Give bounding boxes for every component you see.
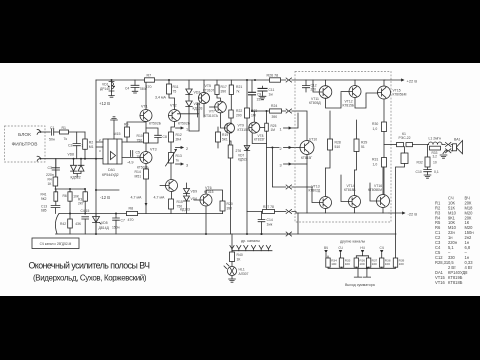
wire VT8 base wire [260, 127, 265, 129]
wire VT14 base [341, 175, 349, 202]
svg-text:1: 1 [280, 128, 282, 132]
wire R3 stubs [84, 189, 86, 214]
svg-text:R41: R41 [40, 193, 46, 197]
wire C3 stub [55, 159, 57, 176]
resistor R32 [425, 157, 430, 167]
svg-text:АЛ307: АЛ307 [239, 272, 249, 276]
capacitor C14 [258, 220, 265, 222]
svg-text:С4: С4 [125, 86, 129, 90]
svg-text:ВА1: ВА1 [454, 138, 461, 142]
wire VT13 collector [325, 209, 327, 214]
diode VD7 [244, 146, 250, 151]
svg-text:100: 100 [331, 262, 336, 266]
capacitor C12 [302, 86, 309, 88]
svg-text:ДР140: ДР140 [100, 87, 110, 91]
wire input 2 [41, 158, 104, 160]
resistor R37 [366, 258, 370, 267]
svg-text:R9: R9 [124, 123, 128, 127]
transistor VT3 [140, 152, 152, 164]
svg-text:2: 2 [186, 147, 188, 151]
svg-text:ФИЛЬТРОВ: ФИЛЬТРОВ [12, 142, 38, 148]
wire VT3 emitter [145, 164, 147, 170]
table component values [435, 196, 474, 286]
svg-text:685: 685 [41, 209, 47, 213]
transistor VT10 [300, 141, 314, 155]
svg-text:5К1: 5К1 [222, 138, 228, 142]
svg-text:7к: 7к [176, 159, 180, 163]
resistor R1 [60, 130, 69, 134]
svg-text:СЧ канал с 25ГД52-М: СЧ канал с 25ГД52-М [40, 242, 72, 246]
svg-text:VT7: VT7 [209, 109, 215, 113]
svg-text:КТ805Д: КТ805Д [309, 101, 321, 105]
svg-text:-22 В: -22 В [408, 211, 418, 216]
net 2 link line [267, 148, 286, 188]
svg-text:КД522: КД522 [71, 176, 81, 180]
svg-text:др. каналы: др. каналы [241, 239, 260, 243]
svg-text:R2: R2 [89, 141, 94, 145]
wire C14 stubs [261, 212, 263, 235]
net arrow 3 left [176, 163, 184, 165]
ground above DA1 [111, 117, 118, 120]
speaker BA1 [453, 141, 463, 154]
wire R32 chain [427, 145, 429, 176]
capacitor C13 [51, 205, 60, 207]
wire R22 to VT9 [230, 118, 232, 123]
ground below C10 [424, 175, 431, 178]
wire R23 down long [246, 118, 248, 234]
transistor VT12 [349, 86, 361, 98]
resistor R39 [393, 258, 397, 267]
dashed power amplifier box [295, 72, 391, 223]
resistor R14 [144, 169, 149, 179]
resistor R26 [270, 78, 281, 82]
wire R29 stubs [355, 120, 357, 170]
svg-text:БЛОК: БЛОК [18, 132, 31, 138]
resistor R23 [245, 108, 250, 118]
net arrow 2 right [284, 147, 292, 149]
svg-text:С8: С8 [163, 135, 167, 139]
transistor VT2 [169, 110, 181, 122]
resistor R4 [53, 177, 58, 186]
wire VT16 collector [382, 208, 384, 214]
wire R14 down [145, 179, 147, 214]
svg-text:43К: 43К [75, 222, 81, 226]
wire VT7 collector [221, 113, 225, 128]
svg-text:100: 100 [372, 262, 377, 266]
connector other channel 3 [244, 246, 248, 251]
diode VD3 [186, 89, 193, 95]
wire net2 into box [292, 147, 300, 149]
resistor R38 [380, 258, 384, 267]
svg-text:780н: 780н [140, 87, 148, 91]
svg-text:276: 276 [236, 149, 242, 153]
diode VD6 [184, 196, 190, 201]
wire C13 bottom [55, 189, 57, 214]
svg-text:L1 2мГн: L1 2мГн [429, 137, 442, 141]
ground speaker [440, 155, 447, 158]
wire VT11 collector [325, 80, 327, 86]
svg-text:R24: R24 [271, 104, 277, 108]
svg-text:С7: С7 [121, 219, 125, 223]
svg-text:М51: М51 [135, 175, 142, 179]
svg-text:750: 750 [137, 139, 143, 143]
diode VD9 [184, 189, 190, 194]
wire speaker return [445, 150, 452, 152]
main bus y234 [56, 233, 397, 235]
capacitor C7 [113, 218, 120, 220]
svg-text:390: 390 [227, 207, 233, 211]
svg-text:VT16: VT16 [435, 280, 446, 285]
wire VT11 emitter [326, 93, 342, 109]
svg-text:75: 75 [173, 90, 177, 94]
svg-text:М15: М15 [114, 132, 121, 136]
svg-text:R15: R15 [177, 200, 183, 204]
svg-text:СЧ: СЧ [338, 246, 342, 250]
svg-text:VD3: VD3 [194, 91, 201, 95]
relay contact boxes [397, 143, 404, 147]
capacitor C4 [131, 85, 139, 87]
svg-text:КД103: КД103 [180, 208, 190, 212]
svg-text:КТ815Г: КТ815Г [254, 138, 265, 142]
connector speaker top [446, 143, 451, 147]
wire diode pair stubs [74, 159, 82, 177]
connector other channel 2 [237, 246, 241, 251]
wire R10 to VT3 [145, 143, 147, 152]
svg-text:7к: 7к [64, 137, 68, 141]
bias line y189 [55, 188, 85, 190]
wire R6 stubs [69, 189, 71, 214]
svg-text:3,4 мА: 3,4 мА [155, 96, 166, 100]
connector X4 bus [286, 232, 291, 236]
svg-text:3: 3 [186, 164, 188, 168]
wire R12 to R13 [170, 142, 172, 153]
wire VT2 collector [169, 94, 175, 110]
lower line y250 [232, 234, 272, 251]
svg-text:100: 100 [385, 262, 390, 266]
wire C4b stubs [84, 219, 86, 234]
wire R4 to bias line [54, 186, 56, 189]
svg-text:КР544УД2: КР544УД2 [102, 173, 119, 177]
supply arrow +22V [385, 79, 404, 81]
net arrow 1 right [284, 127, 292, 129]
svg-text:R40: R40 [237, 253, 243, 257]
ground below HL1 [229, 279, 236, 282]
svg-text:КТ802Д: КТ802Д [309, 189, 321, 193]
svg-text:КД522: КД522 [238, 158, 248, 162]
wire relay coil leads [396, 147, 405, 234]
wire VT16 top [382, 167, 384, 195]
connector input 1 [37, 130, 40, 135]
svg-text:R22: R22 [236, 109, 242, 113]
svg-text:R14: R14 [135, 170, 141, 174]
wire R40 column [231, 251, 233, 252]
wire R20 down [222, 211, 224, 214]
svg-text:0,1: 0,1 [434, 170, 439, 174]
wire R17 stubs [217, 80, 221, 101]
resistor R19 [216, 132, 221, 142]
zener VD5 [93, 217, 100, 223]
svg-text:R17: R17 [221, 85, 227, 89]
wire VT16 base [370, 183, 377, 201]
wire C12 stub [305, 80, 307, 92]
svg-text:2К7: 2К7 [78, 202, 84, 206]
wire R9 top [127, 122, 146, 142]
ic DA1 box [103, 139, 122, 164]
transistor VT14 [349, 196, 361, 208]
svg-text:1К: 1К [237, 258, 241, 262]
connector summator in 3 [361, 250, 364, 253]
wire trimmer curve [55, 214, 59, 234]
resistor R41 [54, 192, 58, 201]
wire VT15 collector [383, 80, 385, 86]
wire VT12 base [341, 91, 349, 93]
svg-text:390: 390 [272, 115, 278, 119]
resistor R20 [220, 201, 225, 211]
svg-text:КТ805БМ: КТ805БМ [393, 93, 407, 97]
svg-text:R26 78: R26 78 [267, 74, 279, 78]
svg-text:DA1: DA1 [108, 168, 115, 172]
connector speaker bottom [446, 149, 451, 153]
capacitor C8 [155, 135, 162, 137]
svg-text:СЧ: СЧ [380, 246, 384, 250]
current arrow left [145, 203, 148, 206]
svg-text:R27 78: R27 78 [263, 205, 274, 209]
wire R40 to HL1 [231, 262, 233, 267]
wire R25 column [266, 111, 268, 212]
wire sum stubs [326, 234, 396, 258]
inductor L1 [429, 142, 443, 145]
svg-text:R11: R11 [173, 85, 179, 89]
wire R31 down [383, 167, 385, 195]
connector summator in 2 [339, 250, 342, 253]
wire R15 down [170, 209, 172, 214]
svg-text:150н: 150н [112, 226, 120, 230]
svg-text:1М: 1М [271, 128, 276, 132]
svg-text:4,7 мА: 4,7 мА [131, 196, 142, 200]
svg-text:С2: С2 [68, 143, 73, 147]
connector other channel 5 [259, 246, 263, 251]
wire C2 stub [76, 132, 78, 159]
wire net1 into box [292, 113, 298, 128]
resistor R6 [68, 192, 72, 201]
svg-text:R4: R4 [48, 178, 52, 182]
svg-text:51: 51 [361, 145, 365, 149]
svg-text:КТ815Б: КТ815Б [343, 103, 355, 107]
connector other channel 1 [230, 246, 234, 251]
connector X2 mid [286, 109, 291, 113]
svg-text:VT3: VT3 [150, 148, 157, 152]
svg-text:КТ502Б: КТ502Б [149, 122, 162, 126]
svg-text:ВЧ: ВЧ [324, 246, 328, 250]
wire relay to L1 [413, 144, 429, 146]
svg-text:9К2: 9К2 [41, 197, 47, 201]
svg-text:R30: R30 [372, 122, 378, 126]
net arrow 1 left [176, 127, 184, 129]
transistor VT4 [166, 180, 178, 192]
capacitor C1 [52, 129, 54, 135]
svg-text:100: 100 [359, 262, 364, 266]
connector summator in 4 [380, 250, 383, 253]
ground tick C4 [132, 91, 138, 93]
capacitor C11 [258, 88, 267, 91]
resistor R30 [382, 122, 387, 132]
svg-text:2: 2 [280, 147, 282, 151]
svg-text:С11: С11 [269, 88, 275, 92]
svg-text:1,0: 1,0 [373, 127, 378, 131]
wire VT14 emitter top [354, 170, 356, 196]
wire VD4 down [189, 103, 199, 131]
svg-text:М1: М1 [89, 145, 94, 149]
svg-text:R32: R32 [417, 161, 423, 165]
wire VT6 collector [206, 190, 223, 201]
wire bus into box [292, 79, 385, 81]
wire VT5 collector [203, 80, 205, 92]
resistor R12 [169, 132, 174, 142]
capacitor C3 [52, 168, 59, 170]
svg-text:Оконечный усилитель полосы ВЧ: Оконечный усилитель полосы ВЧ [29, 260, 151, 270]
svg-text:R12: R12 [176, 133, 182, 137]
resistor R40 [230, 252, 235, 262]
wire main left rail x96 [95, 80, 97, 234]
wire diff to VT5 base [178, 113, 200, 115]
svg-text:+12 В: +12 В [99, 101, 110, 106]
ground tick VD1 [109, 96, 115, 98]
trim resistor R13 [169, 153, 174, 164]
svg-text:10: 10 [433, 161, 437, 165]
wire VD9 column [186, 183, 188, 188]
wire VT12 collector [354, 80, 356, 86]
svg-text:1: 1 [186, 128, 188, 132]
svg-text:390: 390 [221, 90, 227, 94]
svg-text:+22 В: +22 В [407, 78, 418, 83]
resistor R35 [339, 258, 343, 267]
wire R2 to input line 2 [84, 149, 86, 158]
svg-text:С9: С9 [257, 92, 261, 96]
svg-text:R31: R31 [372, 158, 378, 162]
svg-text:1мк: 1мк [267, 223, 273, 227]
ground below C11 [259, 96, 266, 99]
svg-text:Д814Д: Д814Д [99, 226, 110, 230]
resistor R25 [265, 123, 269, 131]
resistor R11 [167, 84, 172, 94]
choke VD1 symbol [109, 80, 114, 92]
svg-text:VD9: VD9 [191, 190, 198, 194]
relay coil K1 [401, 153, 408, 164]
svg-text:КТ315: КТ315 [204, 190, 214, 194]
diode VD6 [71, 165, 77, 171]
svg-text:РЭС-22: РЭС-22 [399, 136, 411, 140]
net 2 drive into box [292, 186, 312, 188]
svg-text:С3: С3 [48, 166, 53, 170]
svg-text:100: 100 [345, 262, 350, 266]
svg-text:100: 100 [399, 262, 404, 266]
resistor R29 [354, 139, 359, 152]
wire node A down [84, 132, 86, 139]
svg-text:1м: 1м [269, 93, 274, 97]
resistor R27 [263, 210, 275, 214]
transistor VT15 [378, 86, 391, 99]
wire lower link right [275, 211, 286, 213]
wire y214 line [59, 213, 223, 215]
wire vas out y111 [252, 110, 286, 112]
resistor R7 [145, 78, 155, 82]
wire VT13 emitter top [325, 168, 327, 197]
wire lower into box [292, 212, 296, 214]
wire speaker gnd [443, 151, 445, 154]
wire VT5 emitter [198, 103, 204, 117]
wire VT14 collector [354, 208, 356, 214]
svg-text:R7: R7 [147, 74, 152, 78]
wire VT10 emitter [306, 155, 308, 214]
connector X1 top [286, 78, 291, 82]
resistor R10 [144, 133, 149, 143]
resistor R2 [83, 139, 88, 149]
svg-text:200: 200 [236, 114, 242, 118]
wire VD1 to gnd [111, 92, 113, 96]
wire -12 stub [96, 189, 119, 191]
svg-text:другие каналы: другие каналы [340, 240, 365, 244]
wire R42 stubs [69, 214, 71, 235]
svg-text:R10: R10 [137, 134, 143, 138]
svg-text:1,0: 1,0 [373, 162, 378, 166]
svg-text:VT2: VT2 [170, 104, 177, 108]
diode VD7 [78, 165, 84, 171]
wire VT2 emitter [171, 122, 175, 133]
wire zener stubs [95, 214, 97, 235]
transistor VT6 [200, 194, 212, 206]
led HL1 [224, 264, 237, 276]
transistor VT9 [225, 123, 235, 133]
black letterbox bottom bar [0, 296, 480, 360]
wire VT13 base [312, 187, 320, 203]
svg-text:R21: R21 [236, 85, 242, 89]
wire R23 column [246, 80, 248, 108]
svg-text:3: 3 [280, 164, 282, 168]
svg-text:50н: 50н [49, 137, 55, 141]
wire R41 stub [55, 189, 57, 205]
connector other channel 6 [266, 246, 270, 251]
svg-text:R20: R20 [227, 202, 233, 206]
connector other channel 4 [251, 246, 255, 251]
rect note box [32, 238, 79, 249]
resistor R31 [382, 158, 387, 168]
summator bottom wire [328, 267, 396, 268]
wire VT8 emitter [252, 133, 266, 144]
svg-text:2К4: 2К4 [176, 138, 182, 142]
wire R11 top [168, 80, 170, 84]
wire R28 stubs [326, 111, 331, 168]
svg-text:3,2: 3,2 [433, 154, 438, 158]
svg-text:-12 В: -12 В [100, 195, 110, 200]
transistor VT16 [377, 195, 390, 208]
svg-text:470: 470 [128, 218, 134, 222]
summator terminal 2 [363, 268, 370, 277]
ic output wire [122, 157, 140, 159]
wire HL1 down [231, 276, 233, 279]
transistor VT7 [215, 101, 227, 113]
wire VD6 down [186, 201, 188, 214]
svg-text:КТ3107А: КТ3107А [204, 114, 219, 118]
svg-text:1К: 1К [48, 182, 52, 186]
wire R21 stubs [230, 80, 232, 110]
svg-text:VT9: VT9 [238, 124, 244, 128]
wire R4 column [55, 159, 57, 177]
resistor R15 [169, 199, 174, 209]
wire C9 column [251, 80, 253, 111]
wire VT7 base [210, 106, 215, 108]
wire R30 to node [383, 132, 385, 158]
wire input 1 [41, 131, 51, 133]
